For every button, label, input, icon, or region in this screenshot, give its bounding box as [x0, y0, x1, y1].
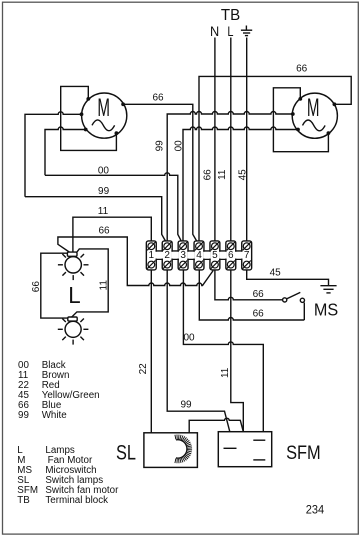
svg-text:11: 11 [98, 280, 109, 291]
legend colour codes [18, 360, 100, 421]
terminal 2 screws and number [163, 242, 171, 269]
wire 22 T1 to SL [150, 270, 152, 433]
box SFM [218, 432, 271, 467]
wire 11 lamp to T1 [73, 217, 151, 252]
svg-text:M: M [97, 94, 110, 122]
svg-text:3: 3 [180, 250, 186, 261]
wire SL to SFM [189, 418, 243, 433]
wire 99 long to T2 [25, 197, 165, 241]
svg-text:99: 99 [18, 410, 29, 421]
svg-text:99: 99 [98, 186, 110, 197]
lamp bottom [58, 317, 89, 345]
svg-text:45: 45 [270, 267, 282, 278]
wire left motor left node [25, 112, 82, 197]
svg-text:1: 1 [149, 250, 155, 261]
svg-text:66: 66 [296, 64, 308, 75]
wire lower bus T3 to right motor [183, 127, 298, 241]
terminal strip bridge 2-3 [171, 251, 179, 259]
terminal 5 screws and number [211, 242, 219, 269]
wire right motor loop [273, 88, 328, 152]
SL fan symbol [175, 435, 192, 464]
svg-text:SFM: SFM [286, 443, 321, 464]
motor M right [291, 93, 338, 138]
svg-text:TB: TB [221, 7, 240, 24]
wire 66 top (T4 to right motor) [199, 76, 351, 241]
terminal strip bridge 3-4 [187, 251, 195, 259]
svg-text:TB: TB [17, 495, 30, 506]
terminal 6 screws and number [227, 242, 235, 269]
earth symbol TB [241, 26, 252, 36]
svg-text:99: 99 [180, 400, 192, 411]
terminal 3 body [178, 241, 188, 270]
terminal block strip [146, 241, 251, 270]
wire 11 T6 to SFM [231, 270, 244, 432]
terminal strip bridge 4-5 [203, 251, 211, 259]
terminal strip bridge 1-2 [156, 251, 164, 259]
svg-text:11: 11 [98, 206, 109, 217]
wire 45 T7 to earth [247, 270, 329, 286]
terminal strip bridge 5-6 [219, 251, 227, 259]
svg-text:MS: MS [314, 300, 338, 320]
svg-text:66: 66 [202, 169, 213, 181]
svg-text:66: 66 [253, 289, 265, 300]
svg-text:00: 00 [98, 165, 110, 176]
svg-text:L: L [68, 282, 80, 308]
svg-text:5: 5 [212, 250, 218, 261]
wire PE [246, 38, 248, 241]
wire 66 left motor to T4 [123, 104, 197, 241]
wire 00 T3 to SFM [183, 270, 263, 432]
wire N [214, 38, 216, 241]
svg-text:SL: SL [116, 442, 136, 465]
terminal strip bridge 6-7 [235, 251, 243, 259]
wire upper bus T2 to right motor [167, 112, 293, 241]
terminal 4 body [194, 241, 204, 270]
svg-text:22: 22 [138, 363, 149, 375]
svg-text:234: 234 [306, 502, 325, 516]
legend abbreviations [17, 445, 119, 506]
svg-text:N: N [210, 24, 219, 39]
svg-text:66: 66 [98, 225, 110, 236]
wire left motor bottom-left node [45, 127, 86, 175]
box SL [144, 433, 198, 468]
svg-text:2: 2 [164, 250, 170, 261]
svg-text:7: 7 [244, 250, 250, 261]
terminal 4 screws and number [195, 242, 203, 269]
svg-text:Terminal block: Terminal block [45, 495, 108, 506]
SFM dashes [224, 440, 266, 460]
wire 99 T2 to SFM [167, 270, 230, 432]
svg-text:45: 45 [237, 169, 248, 181]
svg-text:99: 99 [155, 140, 166, 152]
terminal 6 body [226, 241, 236, 270]
svg-text:66: 66 [253, 309, 265, 320]
wire 00 long to T3 [45, 173, 181, 241]
svg-text:4: 4 [196, 250, 202, 261]
terminal 7 body [242, 241, 252, 270]
svg-text:M: M [307, 94, 320, 122]
svg-text:11: 11 [220, 367, 231, 378]
svg-text:66: 66 [152, 92, 164, 103]
wire 66 lamp to T5 [58, 237, 213, 286]
terminal 2 body [162, 241, 172, 270]
terminal 7 screws and number [243, 242, 251, 269]
svg-text:White: White [42, 410, 68, 421]
terminal 3 screws and number [179, 242, 187, 269]
earth symbol MS [320, 286, 336, 293]
svg-text:00: 00 [183, 332, 195, 343]
svg-text:6: 6 [228, 250, 234, 261]
svg-text:66: 66 [31, 281, 42, 293]
svg-text:00: 00 [173, 140, 184, 152]
svg-text:11: 11 [217, 169, 228, 180]
wire left motor loop [61, 86, 117, 150]
terminal 1 screws and number [147, 242, 155, 269]
wire L [230, 38, 232, 241]
terminal 5 body [210, 241, 220, 270]
wire 66 T5 to MS upper [215, 270, 283, 300]
lamp top [58, 252, 89, 280]
motor M left [80, 93, 127, 138]
terminal 1 body [146, 241, 156, 270]
microswitch MS [283, 292, 305, 320]
wire 66 T4 to MS lower [199, 270, 304, 320]
lamp box L [41, 249, 108, 318]
svg-text:L: L [227, 24, 233, 39]
